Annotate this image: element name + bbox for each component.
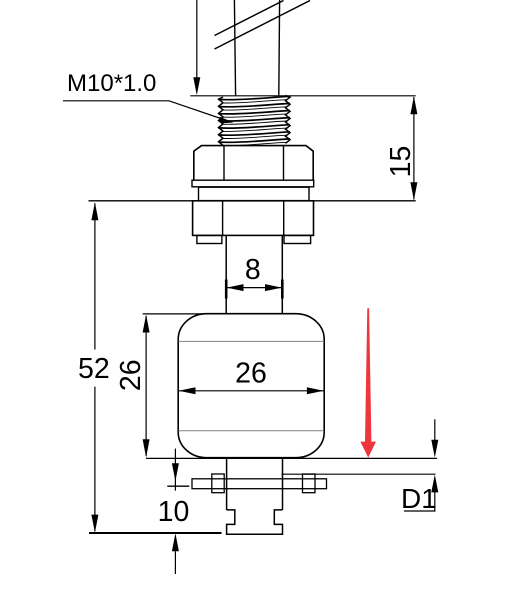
dimension 26 (horizontal) [178, 358, 324, 395]
red travel arrow [360, 308, 376, 457]
float silhouette lines [178, 341, 324, 430]
svg-text:15: 15 [385, 146, 417, 178]
washer [192, 180, 314, 187]
lower shaft [227, 458, 283, 510]
stop washer [192, 479, 327, 489]
D1 leader underline [404, 510, 436, 512]
svg-text:10: 10 [158, 496, 190, 528]
svg-text:52: 52 [78, 353, 110, 385]
dimension arrow (cropped dim from above, points to thread top) [193, 0, 200, 95]
svg-text:26: 26 [115, 359, 147, 391]
float body [178, 314, 324, 458]
clip right [303, 474, 316, 493]
cable (lead wires, broken at top) [234, 0, 279, 96]
extension line at thread top [190, 95, 415, 97]
gland neck [199, 187, 310, 200]
dimension 52 [78, 202, 110, 532]
mounting surface line [89, 200, 416, 202]
dimension D1 upper arrow [431, 419, 438, 457]
dimension 10 [158, 449, 190, 574]
dimension 8 [226, 254, 282, 299]
leader line for M10*1.0 [63, 101, 233, 124]
dimension 26 (vertical, left of float) [115, 314, 207, 458]
dimension D1 lower arrow [431, 475, 438, 511]
hex nut (upper) [194, 146, 313, 180]
thread M10 [219, 96, 291, 146]
stem (upper shaft) [226, 235, 282, 313]
svg-text:26: 26 [235, 358, 267, 390]
end plug [227, 510, 283, 534]
svg-text:M10*1.0: M10*1.0 [67, 70, 156, 97]
lower tabs [197, 235, 311, 243]
svg-text:D1: D1 [401, 483, 437, 514]
dimension 15 [385, 96, 418, 200]
float bottom extension line [146, 457, 437, 459]
bottom extension line [89, 532, 222, 534]
svg-text:8: 8 [245, 254, 261, 286]
clip left [212, 474, 224, 493]
break lines [215, 1, 311, 50]
D1 extension line (clip top level) [282, 473, 436, 475]
hex body (lower) [193, 201, 314, 236]
